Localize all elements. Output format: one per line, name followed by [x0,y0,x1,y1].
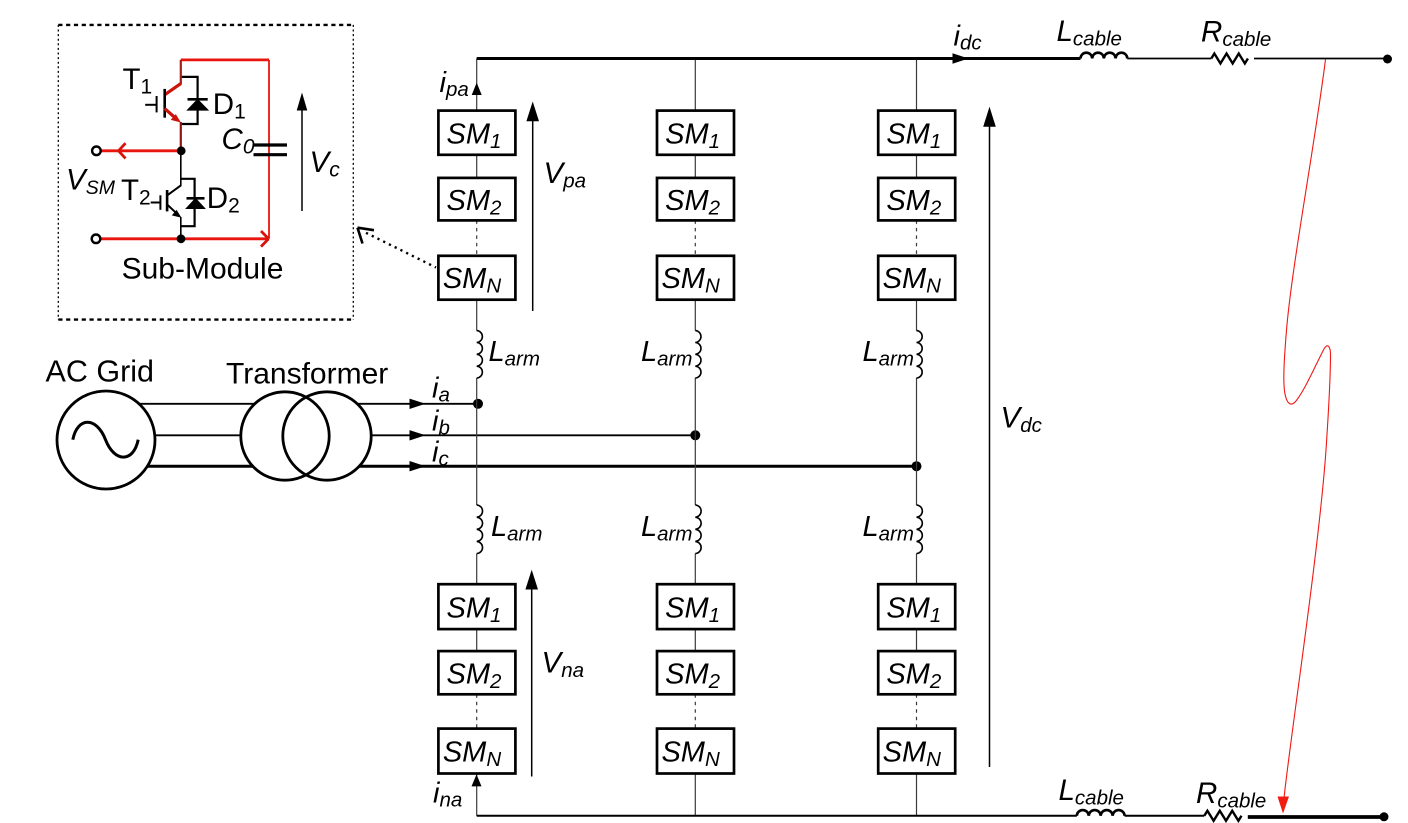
svg-text:T1: T1 [123,63,153,99]
arrowhead ipa [472,83,482,95]
SMN box lower B [657,729,734,774]
svg-text:ina: ina [433,778,462,812]
svg-text:idc: idc [954,21,983,55]
resistor Rcable bottom [1204,811,1241,821]
transformer circles [241,392,371,480]
inductor Larm upper A [477,331,483,378]
terminal upper [92,147,101,156]
SECTION: inset [58,25,436,320]
inductor Larm upper B [695,331,701,378]
svg-text:Vdc: Vdc [1001,402,1043,438]
wire top right [1254,58,1387,60]
junction node mid [177,146,186,155]
wire leg A dashed links [476,220,478,728]
SM1 box upper C [878,111,955,155]
SECTION: phaselegs [433,59,1043,816]
SM2 box lower A [438,651,515,694]
arrowhead ic [410,461,426,471]
svg-text:ia: ia [432,373,450,407]
AC source circle [57,391,155,489]
wire phase c horizontal [106,465,917,468]
SM1 box upper A [438,111,515,155]
svg-text:Rcable: Rcable [1196,777,1266,813]
arrowhead ina [472,774,482,786]
arrowhead ib [410,430,426,440]
node dot bottom right [1380,812,1389,821]
inductor Lcable bottom [1077,810,1125,816]
wire phase a horizontal [106,403,478,405]
svg-text:Vna: Vna [542,647,585,683]
node dot top right [1383,55,1392,64]
SECTION: dcside [477,15,1392,821]
wire top mid [1127,58,1211,60]
wire red bottom output [100,237,267,240]
svg-text:Larm: Larm [641,511,692,546]
svg-text:Larm: Larm [491,511,542,546]
AC source sine wave [73,422,138,457]
arrow Vdc [989,124,991,767]
svg-text:VSM: VSM [66,163,116,199]
svg-text:Larm: Larm [863,511,914,546]
junction dot phase a [473,399,483,409]
svg-text:C0: C0 [222,123,255,159]
SM2 box upper A [438,178,515,221]
transistor T2 (IGBT) [151,151,195,239]
svg-text:ic: ic [432,436,449,470]
svg-text:ib: ib [432,405,450,439]
svg-text:ipa: ipa [440,67,469,101]
junction dot phase c [912,461,922,471]
wire bottom mid [1125,815,1205,817]
SMN box upper A [438,256,515,300]
svg-text:Sub-Module: Sub-Module [122,253,284,286]
SMN box upper C [878,256,955,300]
red arrow right at capacitor bottom [261,231,269,247]
SM2 box upper C [878,178,955,221]
svg-text:D2: D2 [207,182,240,218]
svg-text:Vc: Vc [310,146,341,182]
red fault squiggle [1284,60,1331,799]
inductor Larm lower B [695,505,701,554]
SECTION: acgrid [46,355,922,490]
Vc arrow [301,108,303,211]
sub-module inset dashed box [58,25,353,320]
svg-text:Vpa: Vpa [544,157,587,193]
diode D1 [188,99,208,110]
wire bottom right thick [1248,815,1384,819]
SM1 box lower A [438,584,515,629]
wire DC bus bottom [477,815,1077,817]
svg-text:Lcable: Lcable [1057,15,1122,51]
SM1 box upper B [657,111,734,155]
red arrow left on mid wire [119,143,126,158]
red fault arrowhead [1278,797,1290,814]
arrowhead ia [410,399,426,409]
inductor Larm lower C [917,505,923,554]
wire leg B vertical segments [694,59,696,816]
svg-text:AC Grid: AC Grid [46,355,154,389]
inductor Lcable top [1081,53,1128,59]
wire red mid output [100,149,181,152]
wire red capacitor loop [181,60,269,239]
inductor Larm lower A [477,505,483,554]
dotted pointer arrow to SMN [366,233,436,268]
junction node bottom [177,234,186,243]
terminal lower [92,235,101,244]
svg-text:Lcable: Lcable [1059,774,1124,810]
svg-text:Transformer: Transformer [226,358,388,391]
SMN box lower C [878,729,955,774]
SM2 box lower B [657,651,734,694]
diode D2 [187,198,205,208]
wire phase b horizontal [106,434,695,436]
svg-text:Larm: Larm [641,336,692,371]
resistor Rcable top [1211,54,1248,64]
inductor Larm upper C [917,331,923,378]
SM1 box lower B [657,584,734,629]
arrow Vpa [532,118,534,311]
SMN box upper B [657,256,734,300]
junction dot phase b [690,430,700,440]
svg-text:Larm: Larm [863,336,914,371]
transistor T1 (IGBT, red highlighted) [145,60,197,151]
wire leg C vertical segments [916,59,918,816]
arrowhead idc on top bus [953,53,969,63]
SMN box lower A [438,729,515,774]
wire leg A vertical segments [476,59,478,816]
svg-text:D1: D1 [213,88,246,124]
wire DC bus top thick [477,57,1081,60]
svg-text:T2: T2 [121,174,151,210]
capacitor C0 plates [254,145,288,155]
SM2 box upper B [657,178,734,221]
SM2 box lower C [878,651,955,694]
SM1 box lower C [878,584,955,629]
arrow Vna [531,585,533,777]
svg-text:Larm: Larm [489,336,540,371]
svg-text:Rcable: Rcable [1201,16,1271,52]
